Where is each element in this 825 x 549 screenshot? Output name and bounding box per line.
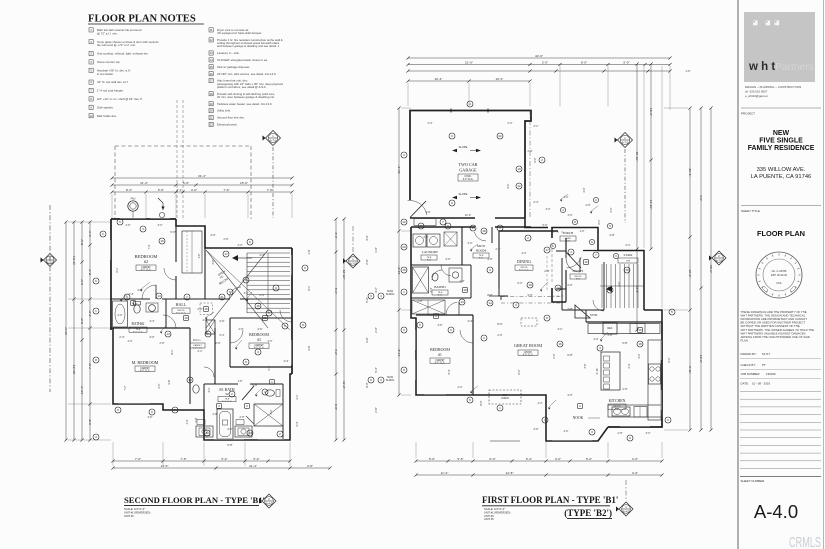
svg-text:3'-0": 3'-0" <box>219 319 224 323</box>
first floor scattered leader notes <box>424 122 651 435</box>
garage door jambs <box>451 109 488 113</box>
bedroom 2 <box>135 254 158 272</box>
svg-text:No. C-34789: No. C-34789 <box>772 269 787 273</box>
svg-text:6'-1": 6'-1" <box>116 267 119 272</box>
svg-text:3'-0": 3'-0" <box>88 310 92 316</box>
svg-text:7'-6": 7'-6" <box>223 188 229 192</box>
svg-text:20'-6": 20'-6" <box>688 169 692 177</box>
svg-text:11: 11 <box>419 224 422 228</box>
svg-text:A-7.0: A-7.0 <box>47 260 54 264</box>
garage interior <box>452 101 539 234</box>
svg-text:3'-6": 3'-6" <box>148 416 153 419</box>
svg-text:CARPET: CARPET <box>140 367 150 370</box>
svg-text:2'-4": 2'-4" <box>628 363 631 368</box>
svg-text:4'-0": 4'-0" <box>238 244 243 247</box>
svg-text:9'-0" CLG.: 9'-0" CLG. <box>141 270 152 272</box>
svg-text:3'-6": 3'-6" <box>307 345 311 350</box>
svg-text:2'-1": 2'-1" <box>534 125 539 128</box>
svg-text:4'-1": 4'-1" <box>208 387 211 392</box>
second floor left dimension chains <box>64 220 111 441</box>
svg-text:4'# equipped w/ back-draft dam: 4'# equipped w/ back-draft damper. <box>217 31 262 35</box>
svg-text:14: 14 <box>157 294 161 298</box>
svg-text:17R: 17R <box>626 260 630 262</box>
first floor top section diamond <box>615 133 633 224</box>
bath 2 label <box>129 322 147 333</box>
svg-text:platform at firebox, see detai: platform at firebox, see detail @ A-9.0. <box>217 85 266 89</box>
svg-text:4'-8": 4'-8" <box>609 233 614 237</box>
svg-text:2'-0": 2'-0" <box>508 122 513 125</box>
svg-text:(TYPE 'B2'): (TYPE 'B2') <box>564 508 612 518</box>
svg-text:2'-8": 2'-8" <box>240 416 245 419</box>
second floor keynote circles <box>93 219 308 440</box>
stair label and treads first floor <box>600 253 644 308</box>
svg-text:3'-4": 3'-4" <box>295 421 299 426</box>
svg-text:18: 18 <box>463 288 467 292</box>
svg-text:KITCHEN: KITCHEN <box>609 399 626 403</box>
porch label <box>560 231 576 242</box>
svg-text:2'-6": 2'-6" <box>498 334 503 337</box>
svg-text:tel. 626.510.0057: tel. 626.510.0057 <box>745 90 768 94</box>
svg-text:9'-0": 9'-0" <box>576 278 581 280</box>
svg-text:4'-0": 4'-0" <box>632 471 638 475</box>
master bath label <box>218 388 236 403</box>
svg-text:CHECK BY:: CHECK BY: <box>741 363 757 367</box>
svg-text:PLAN.: PLAN. <box>741 338 749 342</box>
svg-text:3'-0": 3'-0" <box>546 208 551 211</box>
second floor right annotation column <box>365 235 394 412</box>
second floor fixtures master bath <box>193 385 283 439</box>
svg-text:BATH#3: BATH#3 <box>434 285 446 289</box>
svg-text:7'-5": 7'-5" <box>180 457 186 461</box>
svg-text:31'-4": 31'-4" <box>198 174 206 178</box>
first floor window markings <box>415 330 662 441</box>
svg-text:12'-8": 12'-8" <box>506 471 514 475</box>
svg-text:20 min. door between garage &: 20 min. door between garage & dwelling u… <box>217 95 275 99</box>
svg-text:3'-4": 3'-4" <box>428 122 433 125</box>
svg-text:7'-0": 7'-0" <box>135 457 141 461</box>
CRMLS watermark <box>789 535 821 549</box>
bedroom 1 closet <box>412 300 459 315</box>
svg-text:7'-8": 7'-8" <box>88 363 92 369</box>
svg-text:5'-4": 5'-4" <box>374 367 378 372</box>
svg-text:61717: 61717 <box>762 352 770 356</box>
svg-text:BATH#2: BATH#2 <box>132 322 145 326</box>
svg-text:2'-4": 2'-4" <box>128 292 133 296</box>
svg-text:1'-6": 1'-6" <box>374 247 378 252</box>
svg-text:2'-8": 2'-8" <box>194 417 198 422</box>
svg-text:4'-0": 4'-0" <box>593 337 598 341</box>
wic label <box>190 338 205 349</box>
svg-text:6'-4": 6'-4" <box>448 369 451 374</box>
svg-text:UNIT #1 (REVERSED): UNIT #1 (REVERSED) <box>484 510 510 514</box>
svg-text:& not shelter.: & not shelter. <box>97 72 114 76</box>
svg-text:2'-1": 2'-1" <box>295 394 299 399</box>
svg-text:4'-0": 4'-0" <box>632 457 638 461</box>
svg-text:16: 16 <box>256 304 260 308</box>
svg-text:12'-2": 12'-2" <box>688 270 692 278</box>
second floor small internal dims <box>119 230 311 447</box>
svg-text:A-4.0: A-4.0 <box>754 501 798 522</box>
svg-text:8'-4": 8'-4" <box>126 188 132 192</box>
svg-text:FLOOR PLAN NOTES: FLOOR PLAN NOTES <box>88 14 196 25</box>
svg-text:2'-8": 2'-8" <box>567 307 572 311</box>
svg-text:(11'-2"): (11'-2") <box>72 365 76 375</box>
svg-text:14: 14 <box>488 301 492 305</box>
svg-text:16'-0": 16'-0" <box>649 108 653 116</box>
svg-text:2'-0": 2'-0" <box>542 60 548 64</box>
first floor small internal dims <box>417 69 690 431</box>
second floor left match line and diamond <box>41 205 57 392</box>
svg-text:17: 17 <box>545 248 549 252</box>
svg-text:4'-4": 4'-4" <box>427 313 432 317</box>
svg-text:GREAT ROOM: GREAT ROOM <box>514 343 542 348</box>
attic access dashed box <box>200 303 213 315</box>
svg-text:CONC.: CONC. <box>464 176 472 178</box>
logo squares <box>753 21 779 26</box>
svg-text:10'-4": 10'-4" <box>496 77 504 81</box>
svg-text:2'-8": 2'-8" <box>568 284 573 287</box>
svg-text:4'-6": 4'-6" <box>568 214 573 217</box>
svg-text:3'-0": 3'-0" <box>158 224 163 227</box>
svg-text:7'-2": 7'-2" <box>124 385 127 390</box>
svg-text:BEDROOM: BEDROOM <box>430 347 450 352</box>
dining walls <box>499 231 566 296</box>
sheet title label <box>741 209 760 213</box>
svg-text:2'-4": 2'-4" <box>88 230 92 236</box>
svg-text:BEDROOM: BEDROOM <box>249 332 269 337</box>
svg-text:5'-0": 5'-0" <box>268 365 271 370</box>
entry label <box>570 269 586 280</box>
svg-text:3'-0": 3'-0" <box>618 281 621 286</box>
project address <box>751 167 812 180</box>
svg-text:2'-6": 2'-6" <box>374 407 378 412</box>
svg-text:2'-8": 2'-8" <box>618 432 623 435</box>
svg-text:2'-6": 2'-6" <box>118 314 123 317</box>
first floor right dimension chains <box>635 62 713 431</box>
svg-text:3'-0": 3'-0" <box>445 257 450 261</box>
wht partners logo box <box>744 12 815 82</box>
svg-text:13: 13 <box>205 431 209 435</box>
svg-text:SLOPE: SLOPE <box>459 145 468 149</box>
svg-text:3'-8": 3'-8" <box>212 259 215 264</box>
svg-text:3'-8": 3'-8" <box>438 324 443 327</box>
svg-text:3'-10": 3'-10" <box>595 368 599 375</box>
svg-text:4'-2": 4'-2" <box>558 328 563 331</box>
svg-text:8'-0": 8'-0" <box>581 60 587 64</box>
engineer stamp <box>756 252 802 298</box>
svg-text:5'-8": 5'-8" <box>622 341 627 345</box>
svg-text:4'-4": 4'-4" <box>467 319 472 323</box>
mud room label <box>473 244 489 259</box>
svg-text:3'-4": 3'-4" <box>334 232 338 238</box>
dining label <box>515 259 533 271</box>
svg-text:2'-6": 2'-6" <box>622 387 627 391</box>
svg-text:11'-4": 11'-4" <box>441 471 449 475</box>
svg-text:10: 10 <box>517 167 521 171</box>
svg-text:5'-0": 5'-0" <box>183 181 189 185</box>
svg-text:6'-8": 6'-8" <box>334 404 338 410</box>
svg-text:8'-11": 8'-11" <box>688 366 692 374</box>
second floor top dimension chains <box>110 174 293 218</box>
first floor plan title <box>482 495 618 521</box>
sheet number label <box>741 479 766 483</box>
svg-text:#2: #2 <box>144 259 148 264</box>
second floor stair open-to-below <box>206 250 290 330</box>
svg-text:4'-6": 4'-6" <box>257 327 262 331</box>
svg-text:2'-8": 2'-8" <box>528 150 533 153</box>
svg-text:CARPET: CARPET <box>254 344 264 347</box>
svg-text:13: 13 <box>460 300 464 304</box>
svg-text:8'-6": 8'-6" <box>80 239 84 245</box>
first floor outer walls <box>410 111 662 442</box>
svg-text:4'-0": 4'-0" <box>567 393 572 397</box>
svg-text:5'-0": 5'-0" <box>158 188 164 192</box>
svg-text:44'-6": 44'-6" <box>535 54 543 58</box>
svg-text:Partners: Partners <box>775 62 814 73</box>
svg-text:4'-0": 4'-0" <box>365 235 369 240</box>
svg-text:A-7.0: A-7.0 <box>270 138 277 142</box>
svg-text:8'-4": 8'-4" <box>88 269 92 275</box>
svg-text:3'-2": 3'-2" <box>80 318 84 324</box>
svg-text:2'-6": 2'-6" <box>215 341 220 345</box>
svg-text:(9'-6"): (9'-6") <box>72 256 76 264</box>
svg-text:4'-6": 4'-6" <box>426 211 431 214</box>
svg-text:2'-8": 2'-8" <box>417 299 422 303</box>
sheet title separator <box>741 205 821 207</box>
svg-text:9'-0": 9'-0" <box>438 294 443 296</box>
svg-text:4'-8": 4'-8" <box>202 318 207 322</box>
svg-text:TWO CAR: TWO CAR <box>458 162 477 167</box>
project name <box>748 130 815 152</box>
svg-text:8'-0": 8'-0" <box>497 322 502 326</box>
kitchen label <box>608 399 626 410</box>
svg-text:4'-0": 4'-0" <box>582 187 586 192</box>
svg-text:4'-0": 4'-0" <box>564 196 569 199</box>
sheet title <box>757 229 805 238</box>
svg-text:FLOOR PLAN: FLOOR PLAN <box>757 229 805 238</box>
svg-text:JOB NUMBER:: JOB NUMBER: <box>741 372 761 376</box>
svg-text:6'-0": 6'-0" <box>518 282 523 285</box>
svg-text:2'-1": 2'-1" <box>198 350 203 353</box>
second floor plan title <box>124 495 265 518</box>
svg-text:8'-1": 8'-1" <box>170 349 174 354</box>
svg-text:8'-0": 8'-0" <box>487 293 492 297</box>
svg-text:4'-0": 4'-0" <box>210 233 215 237</box>
first floor left dimension chain <box>397 106 411 396</box>
svg-text:Utility sink.: Utility sink. <box>217 109 231 113</box>
svg-text:2'-6": 2'-6" <box>126 224 131 227</box>
svg-text:3'-2": 3'-2" <box>538 402 543 405</box>
svg-text:4'-2": 4'-2" <box>374 287 378 292</box>
svg-text:2'-8": 2'-8" <box>608 334 613 337</box>
svg-text:12'-10": 12'-10" <box>342 270 346 280</box>
svg-text:15: 15 <box>402 268 406 272</box>
svg-text:5'-0": 5'-0" <box>552 353 556 358</box>
svg-text:1'-4": 1'-4" <box>186 419 189 424</box>
svg-text:14'-5": 14'-5" <box>161 464 169 468</box>
svg-text:2'-1": 2'-1" <box>176 188 182 192</box>
project separator line <box>741 107 821 109</box>
second floor door arcs <box>142 268 292 377</box>
svg-text:13: 13 <box>166 332 170 336</box>
svg-text:11'-4": 11'-4" <box>249 464 257 468</box>
svg-text:w h t: w h t <box>748 61 775 73</box>
svg-text:PROJECT: PROJECT <box>741 112 755 116</box>
svg-text:335 WILLOW AVE.: 335 WILLOW AVE. <box>757 167 806 173</box>
svg-text:15'-0": 15'-0" <box>240 181 248 185</box>
svg-text:4'-0": 4'-0" <box>506 183 510 188</box>
svg-text:4'-0": 4'-0" <box>637 353 641 358</box>
second floor title diamond <box>259 494 276 508</box>
svg-text:A-4.0: A-4.0 <box>266 501 273 505</box>
svg-text:Sink w/ garbage disposer.: Sink w/ garbage disposer. <box>217 65 250 69</box>
svg-text:12: 12 <box>402 220 406 224</box>
svg-text:11'-2": 11'-2" <box>342 381 346 389</box>
svg-text:34'-0": 34'-0" <box>64 327 68 335</box>
svg-text:5'-0": 5'-0" <box>133 303 138 306</box>
svg-text:2'-6": 2'-6" <box>424 236 429 239</box>
svg-text:21'-0": 21'-0" <box>465 214 471 217</box>
svg-text:8'-2": 8'-2" <box>518 369 521 374</box>
svg-text:Gas cooktop, w/hood, light, ex: Gas cooktop, w/hood, light, exhaust fan. <box>97 52 149 56</box>
svg-text:NEW: NEW <box>773 130 790 137</box>
svg-text:FIRST FLOOR PLAN - TYPE 'B1': FIRST FLOOR PLAN - TYPE 'B1' <box>482 495 618 505</box>
svg-text:4'-0": 4'-0" <box>533 427 538 431</box>
svg-text:2'-0": 2'-0" <box>544 269 549 273</box>
svg-text:5'-4": 5'-4" <box>526 457 532 461</box>
svg-text:9'-0": 9'-0" <box>427 259 432 261</box>
svg-text:LAUNDRY: LAUNDRY <box>422 250 439 254</box>
svg-text:ARISING FROM THE UNAUTHORIZED: ARISING FROM THE UNAUTHORIZED USE OF SAI… <box>741 335 810 339</box>
svg-text:and between garage & dwelling: and between garage & dwelling unit see d… <box>217 44 280 48</box>
second floor bottom dimension chains <box>111 442 331 470</box>
svg-text:22: 22 <box>263 316 267 320</box>
svg-text:A-7.0: A-7.0 <box>350 261 357 265</box>
svg-text:2'-4": 2'-4" <box>119 335 124 339</box>
svg-text:5'-0": 5'-0" <box>170 230 175 234</box>
svg-text:A-4.0: A-4.0 <box>623 509 630 513</box>
svg-text:e_wht10@gai.net: e_wht10@gai.net <box>745 94 768 98</box>
svg-text:1'-6": 1'-6" <box>198 253 201 258</box>
svg-text:13: 13 <box>248 431 252 435</box>
svg-text:ROOM: ROOM <box>476 248 486 252</box>
svg-text:SLDNG: SLDNG <box>386 293 395 296</box>
svg-text:2'-0": 2'-0" <box>198 308 203 311</box>
svg-text:GARAGE: GARAGE <box>459 168 477 173</box>
svg-text:4'-0": 4'-0" <box>191 188 197 192</box>
svg-text:UNIT #3: UNIT #3 <box>124 514 134 518</box>
svg-text:3'-0": 3'-0" <box>555 457 561 461</box>
svg-text:W.I.C.: W.I.C. <box>193 338 201 342</box>
notes left column <box>89 28 159 118</box>
svg-text:Second floor line dev.: Second floor line dev. <box>217 116 245 120</box>
svg-text:18: 18 <box>482 229 486 233</box>
svg-text:SCALE: 1/4"=1'-0": SCALE: 1/4"=1'-0" <box>124 507 145 511</box>
second floor outer walls <box>111 219 292 440</box>
svg-text:MUD: MUD <box>477 244 485 248</box>
svg-text:DINING: DINING <box>517 259 531 264</box>
svg-text:DATE:: DATE: <box>741 382 749 386</box>
svg-text:A-7.0: A-7.0 <box>716 258 723 262</box>
svg-text:SLOPE: SLOPE <box>459 192 468 196</box>
svg-text:1'-8": 1'-8" <box>307 249 311 254</box>
second floor roof outline dashed <box>115 146 251 219</box>
section diamond left plan right side <box>343 226 360 268</box>
svg-text:9'-0" CLG.: 9'-0" CLG. <box>523 355 534 357</box>
svg-text:20: 20 <box>402 245 406 249</box>
svg-text:2'-8": 2'-8" <box>224 238 229 241</box>
wht text <box>748 61 775 73</box>
svg-text:DRAWN BY:: DRAWN BY: <box>741 352 757 356</box>
svg-text:6'-8": 6'-8" <box>567 353 572 357</box>
svg-text:EXP. 06-30-20: EXP. 06-30-20 <box>771 274 788 277</box>
svg-text:5'-0": 5'-0" <box>365 297 369 302</box>
svg-text:2'-4": 2'-4" <box>260 294 265 297</box>
svg-text:4'-0": 4'-0" <box>259 253 264 257</box>
svg-text:4'-0": 4'-0" <box>564 430 569 433</box>
svg-text:Tankless water heater, see det: Tankless water heater, see detail. 1/A-1… <box>217 102 272 106</box>
svg-text:PORCH: PORCH <box>563 231 574 235</box>
svg-text:5'-4": 5'-4" <box>253 457 259 461</box>
svg-text:3'-0": 3'-0" <box>527 293 532 297</box>
svg-text:16: 16 <box>638 328 642 332</box>
svg-text:14'-2": 14'-2" <box>397 349 401 357</box>
first floor interior walls <box>411 227 662 395</box>
svg-text:FIVE SINGLE: FIVE SINGLE <box>759 138 803 145</box>
svg-text:59'-6": 59'-6" <box>709 265 713 273</box>
project label <box>741 112 755 116</box>
svg-text:3'-1": 3'-1" <box>625 243 630 247</box>
svg-text:16: 16 <box>204 307 208 311</box>
second floor scattered leader notes <box>116 224 273 431</box>
svg-text:24"x30" min. attic access, see: 24"x30" min. attic access, see detail. 1… <box>217 72 277 76</box>
svg-text:UNIT #1 (REVERSED): UNIT #1 (REVERSED) <box>124 510 150 514</box>
svg-text:SHEET TITLE: SHEET TITLE <box>741 209 760 213</box>
second floor fixtures bath2 <box>113 301 159 327</box>
first floor door arcs <box>432 232 604 343</box>
svg-text:HALL: HALL <box>176 302 187 307</box>
svg-text:9'-0" CLG.: 9'-0" CLG. <box>176 312 186 314</box>
svg-text:Lavatory C-- sink.: Lavatory C-- sink. <box>217 51 240 55</box>
master bedroom label <box>132 360 159 373</box>
bath 3 label <box>413 267 463 296</box>
first floor bottom dimension chains <box>414 442 663 477</box>
great room label <box>514 343 542 357</box>
svg-text:21'-6": 21'-6" <box>465 60 473 64</box>
svg-text:2'-4": 2'-4" <box>460 280 465 283</box>
svg-text:2'-8": 2'-8" <box>496 248 501 251</box>
svg-text:6'-0": 6'-0" <box>80 279 84 285</box>
svg-text:'KHOLER' elongated water close: 'KHOLER' elongated water closet or eq. <box>217 58 268 62</box>
nook label <box>573 416 600 420</box>
svg-text:1'-6": 1'-6" <box>580 230 585 233</box>
svg-text:6'-2": 6'-2" <box>667 357 671 362</box>
svg-text:6'-8": 6'-8" <box>252 383 257 387</box>
svg-text:SECOND FLOOR PLAN - TYPE 'B1': SECOND FLOOR PLAN - TYPE 'B1' <box>124 495 265 505</box>
svg-text:3'-8": 3'-8" <box>88 419 92 425</box>
svg-text:21: 21 <box>220 295 224 299</box>
svg-text:LA PUENTE, CA 91746: LA PUENTE, CA 91746 <box>751 174 812 180</box>
svg-text:NOOK: NOOK <box>573 416 584 420</box>
FAU symbol above second floor wall <box>128 198 165 220</box>
svg-text:REF.: REF. <box>607 327 613 330</box>
svg-text:CRMLS: CRMLS <box>789 535 821 549</box>
svg-text:3'-0": 3'-0" <box>268 340 273 343</box>
svg-text:Stone counter top.: Stone counter top. <box>97 60 121 64</box>
svg-text:CIVIL: CIVIL <box>776 283 782 285</box>
second floor right dimension chains <box>334 217 346 441</box>
svg-text:5'-0": 5'-0" <box>586 457 592 461</box>
